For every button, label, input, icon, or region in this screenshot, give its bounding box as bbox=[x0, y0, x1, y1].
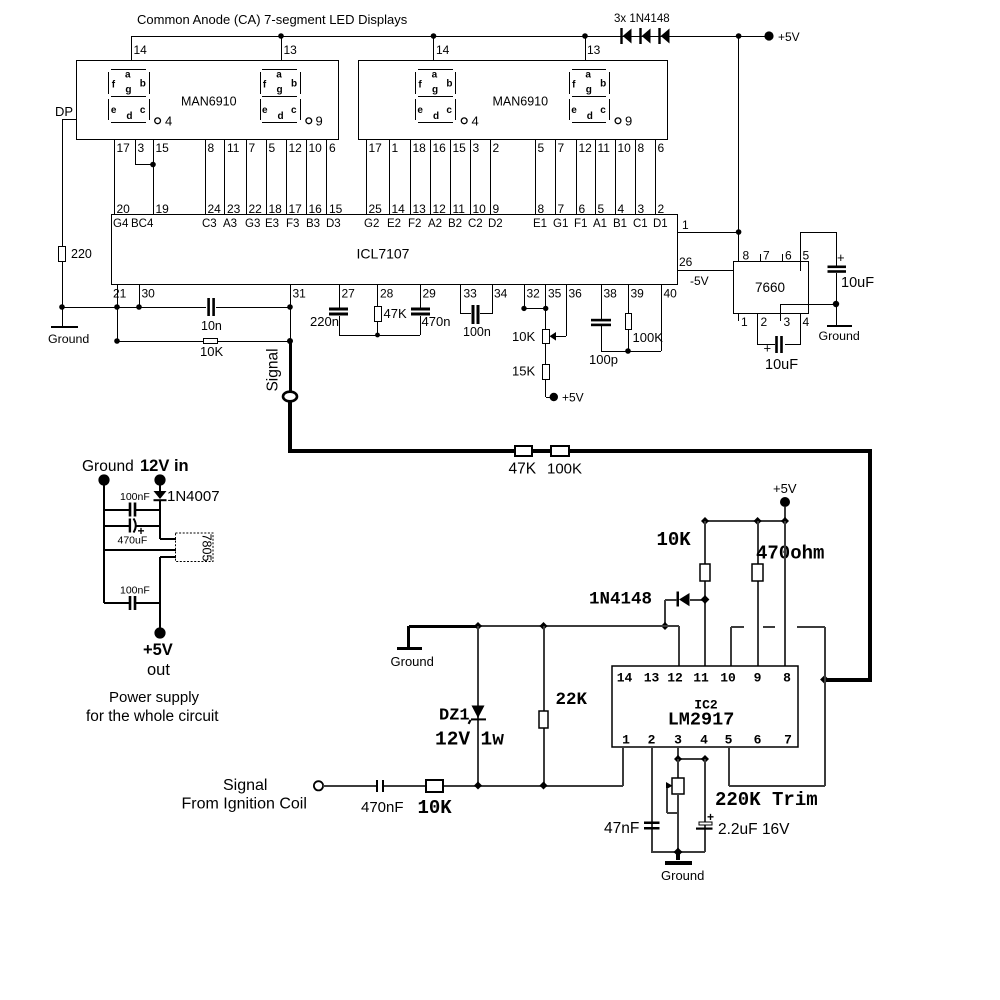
svg-text:3: 3 bbox=[784, 315, 791, 329]
svg-text:G3: G3 bbox=[245, 218, 260, 230]
svg-text:24: 24 bbox=[208, 202, 222, 216]
wire 7805 out down bbox=[159, 557, 161, 633]
svg-text:8: 8 bbox=[208, 141, 215, 155]
svg-text:A2: A2 bbox=[428, 218, 442, 230]
svg-text:G1: G1 bbox=[553, 218, 568, 230]
wire LM2917 pin 5 down bbox=[728, 747, 730, 786]
wire 7660 pin 2 down bbox=[757, 313, 758, 345]
svg-text:7: 7 bbox=[249, 141, 256, 155]
terminal 12V psu bbox=[154, 474, 165, 485]
zener DZ1 wire bbox=[477, 626, 479, 786]
wire psu 12V down bbox=[159, 480, 161, 491]
svg-text:b: b bbox=[600, 79, 606, 90]
svg-text:F1: F1 bbox=[574, 218, 587, 230]
wire trimmer down bbox=[677, 794, 679, 852]
svg-text:7805: 7805 bbox=[200, 534, 214, 562]
svg-text:22K: 22K bbox=[556, 690, 588, 710]
resistor R7 47K (signal) bbox=[515, 446, 532, 456]
svg-text:11: 11 bbox=[453, 202, 466, 216]
wire gnd rail thin bbox=[478, 625, 665, 627]
wire psu cap2 row bbox=[104, 525, 129, 527]
wire to cap C 10uF plus bbox=[836, 232, 837, 266]
IC IC2 LM2917 body bbox=[612, 666, 798, 747]
capacitor C8 47nF bbox=[644, 822, 660, 825]
resistor R11 22K wire bbox=[543, 626, 545, 786]
svg-text:e: e bbox=[571, 105, 577, 116]
svg-text:Ground: Ground bbox=[391, 654, 434, 669]
trimmer R12 220K wire upper bbox=[677, 759, 679, 779]
svg-text:10uF: 10uF bbox=[765, 357, 798, 373]
terminal +5V (ref hi) bbox=[550, 393, 558, 401]
wire stub display2 pin13 bbox=[585, 36, 586, 61]
svg-text:12V: 12V bbox=[435, 729, 470, 751]
wire 7660 pin 4 down bbox=[800, 313, 801, 345]
svg-text:10K: 10K bbox=[200, 344, 223, 359]
svg-text:28: 28 bbox=[380, 287, 394, 301]
node junction pin30 bbox=[136, 304, 142, 310]
wire 7660 pin5 top bbox=[801, 232, 836, 233]
svg-text:17: 17 bbox=[289, 202, 303, 216]
svg-text:E3: E3 bbox=[265, 218, 279, 230]
terminal +5V (LM2917) bbox=[780, 497, 790, 507]
svg-text:+5V: +5V bbox=[562, 391, 584, 405]
wire display2 pin 8 to ICL C1 bbox=[635, 140, 636, 215]
svg-text:6: 6 bbox=[329, 141, 336, 155]
node junction signal/pin5/pin10 bbox=[820, 675, 829, 684]
svg-text:ICL7107: ICL7107 bbox=[357, 246, 410, 262]
wire junction down to ground bbox=[836, 304, 837, 325]
svg-text:C2: C2 bbox=[468, 218, 483, 230]
wire R3 down bbox=[377, 322, 378, 335]
diode D3 1N4148 bbox=[658, 28, 660, 44]
wire psu cap3 row bbox=[104, 602, 129, 604]
node junction 22K top bbox=[540, 622, 548, 630]
wire ICL pin 40 bbox=[661, 284, 662, 351]
svg-text:e: e bbox=[262, 105, 268, 116]
wire gnd rail to pin 12 bbox=[665, 625, 679, 627]
svg-text:1: 1 bbox=[741, 315, 748, 329]
wire display1 pin 3 jog bbox=[135, 140, 136, 165]
wire pin 34 to C4 bbox=[480, 313, 493, 314]
svg-text:10uF: 10uF bbox=[841, 275, 874, 291]
svg-text:a: a bbox=[125, 70, 131, 81]
svg-text:100p: 100p bbox=[589, 352, 618, 367]
wire display1 pin 7 to ICL G3 bbox=[246, 140, 247, 215]
capacitor C4 100n bbox=[472, 305, 475, 324]
svg-text:4: 4 bbox=[803, 315, 810, 329]
node junction display2 pin14 bbox=[431, 33, 437, 39]
svg-text:10: 10 bbox=[720, 671, 736, 686]
wire C7 down bbox=[601, 326, 602, 351]
svg-text:12V in: 12V in bbox=[140, 457, 189, 475]
wire display2 pin 6 to ICL D1 bbox=[655, 140, 656, 215]
wire display1 pin 11 to ICL A3 bbox=[224, 140, 225, 215]
capacitor C2 220n bbox=[329, 308, 348, 311]
node junction pin39 bottom bbox=[625, 348, 631, 354]
wire pin32 to pin35 bbox=[524, 308, 546, 309]
resistor R3 47K bbox=[375, 307, 382, 322]
svg-text:30: 30 bbox=[142, 287, 156, 301]
svg-text:2: 2 bbox=[648, 733, 656, 748]
wire diode down to gnd rail bbox=[664, 600, 666, 626]
svg-text:c: c bbox=[446, 105, 452, 116]
terminal +5V out bbox=[154, 627, 165, 638]
svg-text:Ground: Ground bbox=[661, 868, 704, 883]
wire stub display2 pin14 bbox=[433, 36, 434, 61]
wire ICL pin 26 -5V to 7660 pin 5 bbox=[677, 270, 801, 271]
svg-text:2: 2 bbox=[761, 315, 768, 329]
IC U4 7660 body bbox=[734, 262, 809, 314]
wire ICL pin 1 to +5V rail bbox=[677, 232, 739, 233]
wire pin 10 up bbox=[730, 627, 732, 666]
node junction 10K left bbox=[114, 338, 120, 344]
svg-text:+5V: +5V bbox=[773, 481, 797, 496]
svg-text:DZ1: DZ1 bbox=[439, 707, 470, 726]
svg-text:4: 4 bbox=[472, 114, 479, 129]
wire int bottom rail 27-28-29 bbox=[339, 335, 420, 336]
pin tick 6 7660 bbox=[782, 254, 783, 262]
svg-text:10K: 10K bbox=[657, 529, 692, 551]
wire display2 pin 16 to ICL A2 bbox=[430, 140, 431, 215]
svg-text:13: 13 bbox=[284, 43, 298, 57]
svg-text:5: 5 bbox=[803, 249, 810, 263]
svg-text:2: 2 bbox=[493, 141, 500, 155]
svg-text:1: 1 bbox=[622, 733, 630, 748]
wire signal thick horizontal bbox=[288, 449, 515, 453]
svg-text:2: 2 bbox=[658, 202, 665, 216]
display U1 MAN6910 body bbox=[77, 61, 339, 140]
wire cap to 10K bbox=[384, 785, 426, 787]
svg-text:5: 5 bbox=[598, 202, 605, 216]
svg-text:12: 12 bbox=[667, 671, 683, 686]
svg-text:10: 10 bbox=[473, 202, 487, 216]
capacitor C5 10uF (right) bbox=[828, 266, 847, 269]
svg-text:35: 35 bbox=[548, 287, 562, 301]
svg-text:17: 17 bbox=[117, 141, 131, 155]
trimmer R12 wiper arrow bbox=[666, 782, 673, 789]
wire display2 pin 17 to ICL G2 bbox=[366, 140, 367, 215]
svg-text:29: 29 bbox=[423, 287, 437, 301]
node junction pin3/15 bbox=[150, 162, 156, 168]
node junction pin32 bbox=[521, 306, 526, 311]
wire signal thick connector down bbox=[288, 401, 292, 453]
svg-text:B3: B3 bbox=[306, 218, 320, 230]
wire +5V vertical to 7660 pin 8 bbox=[738, 36, 739, 262]
svg-text:D3: D3 bbox=[326, 218, 341, 230]
wire R1 to ground rail bbox=[62, 262, 63, 307]
wire pin 1 left to 10K bbox=[443, 785, 623, 787]
svg-text:Common Anode (CA) 7-segment L: Common Anode (CA) 7-segment LED Displays bbox=[137, 12, 408, 27]
wire display2 pin 7 to ICL G1 bbox=[555, 140, 556, 215]
resistor R2 10K bbox=[204, 339, 218, 344]
svg-text:G4: G4 bbox=[113, 218, 129, 230]
trimmer R12 220K body bbox=[672, 778, 684, 794]
node junction diode/10K bbox=[701, 595, 710, 604]
svg-text:b: b bbox=[446, 79, 452, 90]
node junction gnd bottom bbox=[674, 848, 683, 857]
svg-text:40: 40 bbox=[664, 287, 678, 301]
resistor R8 100K (signal) bbox=[551, 446, 569, 456]
svg-text:6: 6 bbox=[658, 141, 665, 155]
wire display1 pin 10 to ICL B3 bbox=[306, 140, 307, 215]
wire stub display1 pin14 bbox=[131, 36, 132, 61]
svg-text:100nF: 100nF bbox=[120, 491, 150, 503]
svg-text:11: 11 bbox=[598, 141, 611, 155]
diode D1 1N4148 bbox=[620, 28, 622, 44]
wire psu cap1 row bbox=[104, 509, 129, 511]
svg-text:A3: A3 bbox=[223, 218, 237, 230]
wire signal thick to right bbox=[569, 449, 872, 453]
wire LM2917 pin 1 down bbox=[622, 747, 624, 786]
svg-text:3: 3 bbox=[138, 141, 145, 155]
resistor R9 10K body bbox=[700, 564, 710, 581]
wire LM2917 pin 3 down bbox=[677, 747, 679, 759]
svg-text:Power supply: Power supply bbox=[109, 689, 200, 706]
svg-text:Ground: Ground bbox=[82, 458, 134, 475]
wire 10K row bbox=[117, 341, 203, 342]
svg-text:g: g bbox=[432, 85, 438, 96]
svg-text:15K: 15K bbox=[512, 364, 535, 379]
trimmer R4 10K body bbox=[543, 330, 550, 344]
wire display2 pin 5 to ICL E1 bbox=[535, 140, 536, 215]
capacitor C12 470uF bbox=[129, 519, 131, 533]
node junction pin35 bbox=[543, 306, 548, 311]
svg-text:1: 1 bbox=[392, 141, 399, 155]
svg-text:A1: A1 bbox=[593, 218, 607, 230]
svg-text:17: 17 bbox=[369, 141, 383, 155]
7-segment digit glyph (dp 4) bbox=[108, 69, 172, 129]
svg-text:14: 14 bbox=[392, 202, 406, 216]
svg-text:10K: 10K bbox=[512, 329, 535, 344]
svg-text:33: 33 bbox=[464, 287, 478, 301]
svg-text:Signal: Signal bbox=[265, 348, 282, 391]
capacitor C13 100nF (psu bottom) bbox=[129, 596, 132, 610]
svg-text:1w: 1w bbox=[481, 729, 505, 751]
svg-text:From Ignition Coil: From Ignition Coil bbox=[182, 796, 307, 813]
pin tick 7 7660 bbox=[760, 254, 761, 262]
node junction +5V rail right bbox=[781, 517, 789, 525]
wire LM2917 pin 4 down bbox=[704, 759, 706, 852]
svg-text:B2: B2 bbox=[448, 218, 462, 230]
node junction +5V to 7660 bbox=[736, 33, 742, 39]
7-segment digit glyph (dp 4) bbox=[415, 69, 479, 129]
svg-text:20: 20 bbox=[117, 202, 131, 216]
svg-text:38: 38 bbox=[604, 287, 618, 301]
node junction 22K bottom bbox=[540, 782, 548, 790]
svg-text:39: 39 bbox=[631, 287, 645, 301]
svg-text:MAN6910: MAN6910 bbox=[493, 95, 549, 109]
svg-text:7: 7 bbox=[558, 202, 565, 216]
svg-text:47K: 47K bbox=[384, 306, 407, 321]
wire 10K to pin 11 bbox=[704, 521, 706, 666]
svg-text:100nF: 100nF bbox=[120, 585, 150, 597]
svg-text:d: d bbox=[126, 111, 132, 122]
wire ICL pin 39 bbox=[628, 284, 629, 314]
svg-text:100K: 100K bbox=[633, 330, 664, 345]
resistor R13 10K body bbox=[426, 780, 443, 792]
wire display2 pin 11 to ICL A1 bbox=[595, 140, 596, 215]
wire pin 5 right bbox=[729, 785, 825, 787]
wire pin21 down bbox=[117, 307, 118, 341]
pin tick 1 7660 bbox=[738, 313, 739, 321]
svg-text:12: 12 bbox=[579, 141, 593, 155]
wire LM2917 +5V rail bbox=[705, 520, 785, 522]
svg-text:e: e bbox=[111, 105, 117, 116]
wire +5V to pin 8 bbox=[784, 521, 786, 666]
svg-text:4: 4 bbox=[618, 202, 625, 216]
wire pin 10 rail seg1 bbox=[731, 626, 744, 628]
ground symbol (LM2917 left) bbox=[407, 626, 410, 648]
wire 7805 out bbox=[160, 556, 176, 558]
svg-text:7: 7 bbox=[558, 141, 565, 155]
resistor R6 100K bbox=[626, 314, 632, 330]
svg-text:c: c bbox=[140, 105, 146, 116]
wire display2 pin 12 to ICL F1 bbox=[576, 140, 577, 215]
svg-text:g: g bbox=[277, 85, 283, 96]
svg-text:C1: C1 bbox=[633, 218, 648, 230]
wire display2 pin 2 to ICL D2 bbox=[490, 140, 491, 215]
diode D5 1N4007 bbox=[154, 491, 167, 499]
svg-text:31: 31 bbox=[293, 287, 307, 301]
svg-text:D2: D2 bbox=[488, 218, 503, 230]
wire pin10/pin5 riser bbox=[824, 627, 826, 786]
svg-text:34: 34 bbox=[494, 287, 508, 301]
wire trimmer to 15K bbox=[545, 344, 546, 365]
svg-text:21: 21 bbox=[113, 287, 127, 301]
svg-text:3: 3 bbox=[473, 141, 480, 155]
wire ICL pin 35 bbox=[545, 284, 546, 329]
svg-text:4: 4 bbox=[700, 733, 708, 748]
svg-text:16: 16 bbox=[309, 202, 323, 216]
svg-text:g: g bbox=[586, 85, 592, 96]
ground symbol (left) bbox=[51, 326, 78, 328]
wire analog common rail (to 10n) bbox=[62, 307, 206, 308]
wire signal thick down to connector bbox=[289, 343, 292, 393]
svg-text:11: 11 bbox=[693, 671, 709, 686]
wire gnd to 7805 bbox=[104, 549, 176, 551]
7-segment digit glyph (dp 9) bbox=[260, 69, 323, 129]
wire input to cap bbox=[323, 785, 376, 787]
capacitor C10 470nF bbox=[376, 780, 378, 792]
node junction DZ1 top bbox=[474, 622, 482, 630]
svg-text:6: 6 bbox=[754, 733, 762, 748]
node junction pin1/+5V bbox=[736, 229, 742, 235]
node junction display1 pin13 bbox=[278, 33, 284, 39]
node junction pin21 bbox=[114, 304, 120, 310]
svg-text:8: 8 bbox=[638, 141, 645, 155]
wire ICL pin 21 bbox=[117, 284, 118, 307]
svg-text:220n: 220n bbox=[310, 314, 339, 329]
connector signal oval bbox=[283, 392, 297, 402]
svg-text:7: 7 bbox=[784, 733, 792, 748]
wire ICL pin 27 bbox=[339, 284, 340, 308]
diode D2 1N4148 bbox=[639, 28, 641, 44]
svg-text:Ground: Ground bbox=[819, 329, 860, 343]
wire ground rail down bbox=[62, 307, 63, 326]
svg-text:9: 9 bbox=[316, 114, 323, 129]
node junction pin28 bottom bbox=[375, 333, 380, 338]
svg-text:3: 3 bbox=[638, 202, 645, 216]
resistor R11 22K body bbox=[539, 711, 548, 728]
node junction diode L/gnd rail bbox=[661, 622, 669, 630]
svg-text:+5V: +5V bbox=[143, 641, 173, 659]
wire ICL pin 36 bbox=[566, 284, 567, 336]
svg-text:16: 16 bbox=[433, 141, 447, 155]
svg-text:e: e bbox=[417, 105, 423, 116]
svg-text:25: 25 bbox=[369, 202, 383, 216]
wire diode cathode left bbox=[665, 599, 677, 601]
svg-text:a: a bbox=[276, 70, 282, 81]
svg-text:a: a bbox=[585, 70, 591, 81]
svg-text:100n: 100n bbox=[463, 325, 491, 339]
wire stub display1 pin13 bbox=[281, 36, 282, 61]
svg-text:12: 12 bbox=[433, 202, 447, 216]
node junction DZ1 bottom bbox=[474, 782, 482, 790]
wire display2 pin 3 to ICL C2 bbox=[470, 140, 471, 215]
svg-text:32: 32 bbox=[527, 287, 541, 301]
wire cap C5 to ground bbox=[836, 273, 837, 304]
wire ICL pin 38 bbox=[601, 284, 602, 319]
wire display1 pin 6 to ICL D3 bbox=[326, 140, 327, 215]
wire diode anode to 10K wire bbox=[690, 599, 705, 601]
svg-text:22: 22 bbox=[249, 202, 263, 216]
svg-text:13: 13 bbox=[413, 202, 427, 216]
resistor R1 220 bbox=[59, 247, 66, 262]
svg-text:9: 9 bbox=[493, 202, 500, 216]
svg-text:14: 14 bbox=[134, 43, 148, 57]
wire display1 pin 8 to ICL C3 bbox=[205, 140, 206, 215]
svg-text:-5V: -5V bbox=[690, 274, 709, 288]
svg-text:d: d bbox=[587, 111, 593, 122]
wire display1 pin 5 to ICL E3 bbox=[266, 140, 267, 215]
svg-text:7660: 7660 bbox=[755, 280, 785, 295]
svg-text:C3: C3 bbox=[202, 218, 217, 230]
svg-text:+5V: +5V bbox=[778, 30, 800, 44]
wire +5V to rail bbox=[784, 507, 786, 521]
terminal ground psu bbox=[98, 474, 109, 485]
svg-text:23: 23 bbox=[227, 202, 241, 216]
display U2 MAN6910 body bbox=[359, 61, 668, 140]
node junction pin4 link bbox=[701, 755, 709, 763]
svg-text:15: 15 bbox=[156, 141, 170, 155]
wire 7660 pin 3 to junction bbox=[780, 304, 836, 305]
svg-text:27: 27 bbox=[342, 287, 356, 301]
wire pin 10 rail seg3 bbox=[797, 626, 825, 628]
node junction pin3 link bbox=[674, 755, 682, 763]
wire psu ground rail bbox=[103, 480, 105, 603]
svg-text:BC4: BC4 bbox=[131, 218, 154, 230]
svg-text:9: 9 bbox=[754, 671, 762, 686]
capacitor C9 2.2uF 16V bbox=[699, 822, 712, 825]
wire 470ohm to pin 9 bbox=[757, 521, 759, 666]
wire gnd thick horizontal bbox=[409, 625, 478, 628]
svg-text:8: 8 bbox=[538, 202, 545, 216]
wire signal thick down right side bbox=[868, 451, 872, 682]
svg-text:MAN6910: MAN6910 bbox=[181, 95, 237, 109]
wire 15K to +5V bbox=[545, 380, 546, 397]
svg-text:15: 15 bbox=[329, 202, 343, 216]
svg-text:Ground: Ground bbox=[48, 332, 89, 346]
svg-text:470n: 470n bbox=[422, 314, 451, 329]
IC U3 ICL7107 body bbox=[112, 215, 678, 285]
wire ICL pin 33 bbox=[460, 284, 461, 314]
svg-text:D1: D1 bbox=[653, 218, 668, 230]
svg-text:5: 5 bbox=[269, 141, 276, 155]
svg-text:220K Trim: 220K Trim bbox=[715, 789, 818, 811]
wire signal thick to LM2917 junction bbox=[825, 678, 872, 682]
svg-text:8: 8 bbox=[783, 671, 791, 686]
wire bottom rail pin2-pin4 bbox=[651, 851, 705, 853]
